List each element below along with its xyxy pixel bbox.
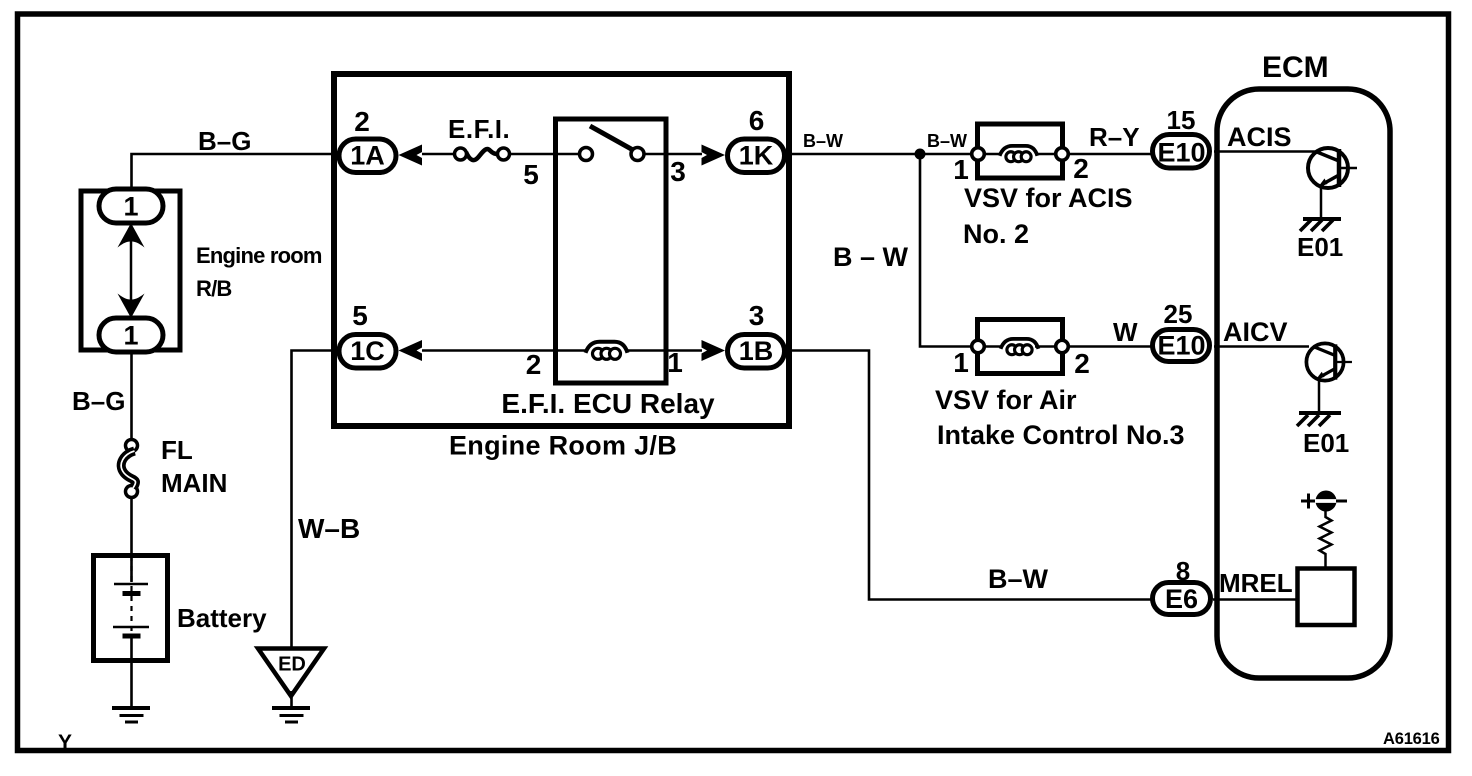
svg-text:ECM: ECM bbox=[1262, 51, 1329, 84]
svg-text:Y: Y bbox=[58, 731, 72, 754]
svg-text:1: 1 bbox=[953, 154, 969, 185]
svg-text:1: 1 bbox=[953, 347, 969, 378]
svg-text:MREL: MREL bbox=[1219, 568, 1293, 598]
svg-text:MAIN: MAIN bbox=[161, 468, 227, 498]
svg-text:E10: E10 bbox=[1157, 138, 1205, 168]
svg-text:A61616: A61616 bbox=[1383, 730, 1440, 748]
svg-text:B–W: B–W bbox=[803, 131, 843, 151]
svg-text:1: 1 bbox=[123, 321, 138, 351]
svg-text:AICV: AICV bbox=[1223, 317, 1288, 347]
svg-text:R–Y: R–Y bbox=[1089, 122, 1140, 152]
svg-text:Engine Room J/B: Engine Room J/B bbox=[449, 431, 677, 461]
svg-text:1A: 1A bbox=[350, 141, 385, 171]
svg-text:E6: E6 bbox=[1165, 584, 1198, 614]
svg-text:No. 2: No. 2 bbox=[963, 219, 1029, 249]
svg-text:W: W bbox=[1113, 317, 1138, 347]
svg-text:1: 1 bbox=[123, 192, 138, 222]
svg-text:2: 2 bbox=[1073, 153, 1089, 184]
svg-text:25: 25 bbox=[1164, 299, 1193, 329]
svg-text:E.F.I. ECU Relay: E.F.I. ECU Relay bbox=[501, 388, 715, 419]
svg-text:1: 1 bbox=[667, 347, 683, 378]
svg-text:8: 8 bbox=[1176, 556, 1190, 586]
svg-text:VSV for Air: VSV for Air bbox=[935, 385, 1077, 415]
svg-text:1K: 1K bbox=[739, 141, 774, 171]
svg-text:ACIS: ACIS bbox=[1227, 122, 1292, 152]
svg-text:1C: 1C bbox=[350, 336, 385, 366]
svg-text:2: 2 bbox=[1074, 348, 1090, 379]
svg-text:5: 5 bbox=[352, 300, 368, 331]
svg-text:3: 3 bbox=[749, 300, 765, 331]
svg-text:B–G: B–G bbox=[198, 126, 251, 156]
svg-text:E01: E01 bbox=[1303, 428, 1349, 458]
svg-text:FL: FL bbox=[161, 435, 193, 465]
svg-text:B–G: B–G bbox=[72, 386, 125, 416]
svg-text:2: 2 bbox=[354, 106, 370, 137]
svg-text:VSV for ACIS: VSV for ACIS bbox=[964, 183, 1133, 213]
svg-text:B–W: B–W bbox=[988, 564, 1049, 594]
svg-text:B – W: B – W bbox=[833, 242, 909, 272]
svg-text:6: 6 bbox=[749, 105, 765, 136]
svg-text:15: 15 bbox=[1167, 105, 1196, 135]
svg-text:3: 3 bbox=[670, 156, 686, 187]
svg-text:W–B: W–B bbox=[298, 513, 360, 544]
svg-text:B–W: B–W bbox=[927, 131, 967, 151]
svg-text:1B: 1B bbox=[739, 336, 774, 366]
svg-text:ED: ED bbox=[278, 654, 306, 676]
svg-text:5: 5 bbox=[523, 159, 539, 190]
svg-text:E01: E01 bbox=[1297, 232, 1343, 262]
svg-text:Intake Control No.3: Intake Control No.3 bbox=[937, 420, 1185, 450]
svg-text:2: 2 bbox=[526, 349, 542, 380]
svg-text:R/B: R/B bbox=[196, 276, 232, 301]
svg-text:E.F.I.: E.F.I. bbox=[448, 114, 510, 144]
svg-text:Engine room: Engine room bbox=[196, 243, 322, 268]
svg-text:E10: E10 bbox=[1157, 331, 1205, 361]
svg-text:Battery: Battery bbox=[177, 603, 267, 633]
